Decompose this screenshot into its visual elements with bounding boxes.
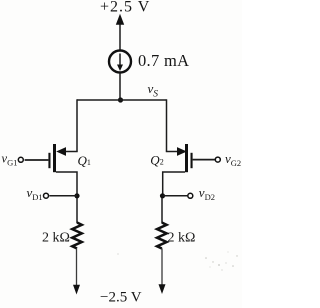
transistor Q1 channel bar <box>53 144 56 172</box>
svg-text:vG2: vG2 <box>225 151 241 168</box>
Q2 source lead with arrow (PMOS, arrow into channel) <box>166 147 187 156</box>
svg-text:vS: vS <box>148 81 159 100</box>
svg-text:vD1: vD1 <box>27 185 43 202</box>
current source I 0.7 mA <box>109 51 131 73</box>
svg-text:vD2: vD2 <box>199 185 215 202</box>
wire: vD2 stub <box>163 195 188 197</box>
svg-text:0.7 mA: 0.7 mA <box>138 51 189 70</box>
resistor R1 2 kOhm <box>72 223 82 249</box>
svg-text:vG1: vG1 <box>2 151 18 167</box>
wire: Q2 source vertical <box>166 99 168 151</box>
transistor Q1 gate bar <box>48 153 50 168</box>
wire: current source to node vS <box>119 73 121 100</box>
transistor Q2 channel bar <box>185 144 188 172</box>
svg-text:Q1: Q1 <box>78 153 91 168</box>
terminal vD2 circle <box>188 193 193 198</box>
terminal vD1 circle <box>44 193 49 198</box>
wire: Q1 source vertical <box>76 99 78 151</box>
resistor R2 2 kOhm <box>157 223 167 249</box>
terminal vG2 circle <box>215 157 220 162</box>
node vS junction dot <box>118 97 123 102</box>
svg-text:+2.5 V: +2.5 V <box>100 0 150 16</box>
wire: vS rail horizontal <box>77 99 167 101</box>
svg-text:−2.5 V: −2.5 V <box>100 289 142 305</box>
wire: Q2 gate lead <box>193 159 215 161</box>
node vD1 junction dot <box>74 193 79 198</box>
arrow to -2.5 V (right) <box>159 284 166 294</box>
Q1 source lead with arrow (PMOS, arrow into channel) <box>56 147 77 156</box>
svg-text:2 kΩ: 2 kΩ <box>42 230 70 245</box>
current source arrow (down) <box>117 54 123 72</box>
wire: R1 to -2.5V <box>76 248 78 286</box>
supply arrow up <box>116 14 124 51</box>
transistor Q2 gate bar <box>191 153 193 168</box>
svg-text:2 kΩ: 2 kΩ <box>168 230 196 245</box>
wire: vD1 stub <box>49 195 77 197</box>
wire: Q1 drain lead <box>56 172 77 223</box>
wire: Q1 gate lead <box>25 159 49 161</box>
svg-text:Q2: Q2 <box>150 153 163 168</box>
wire: Q2 drain to resistor <box>161 196 163 223</box>
arrow to -2.5 V (left) <box>73 285 80 295</box>
wire: R2 to -2.5V <box>161 248 163 285</box>
terminal vG1 circle <box>18 157 23 162</box>
node vD2 junction dot <box>160 193 165 198</box>
wire: Q2 drain lead <box>163 172 185 196</box>
